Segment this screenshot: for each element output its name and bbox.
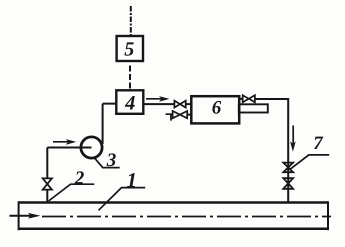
svg-text:6: 6 bbox=[212, 98, 222, 119]
svg-text:2: 2 bbox=[74, 168, 85, 189]
svg-text:1: 1 bbox=[127, 168, 138, 192]
svg-text:3: 3 bbox=[106, 150, 117, 171]
svg-text:7: 7 bbox=[313, 133, 324, 154]
svg-text:5: 5 bbox=[124, 38, 134, 60]
svg-text:4: 4 bbox=[124, 92, 135, 114]
